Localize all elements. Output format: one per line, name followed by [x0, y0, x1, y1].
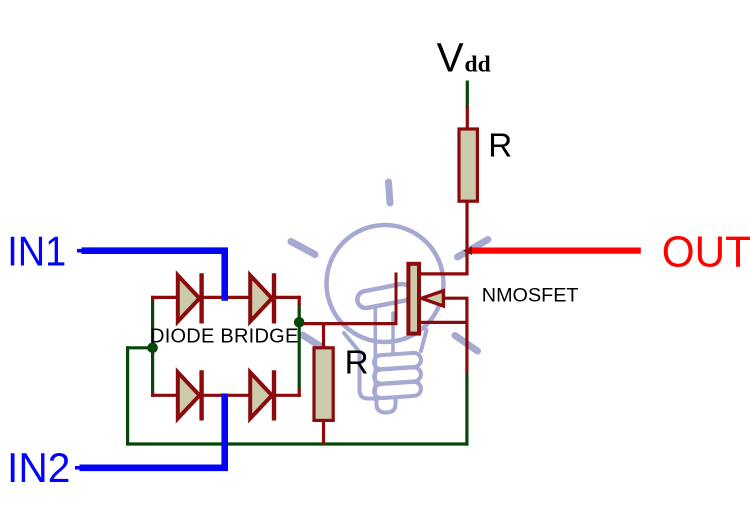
wire source lower vertical (green net)	[465, 372, 468, 446]
resistor R1 body	[459, 129, 477, 201]
svg-text:IN2: IN2	[7, 445, 70, 492]
label Vdd	[437, 35, 491, 81]
wire R2 top stub	[322, 322, 325, 348]
wire left dot feed (green net)	[126, 346, 154, 349]
wire bridge right edge (green net)	[298, 303, 301, 390]
svg-text:V: V	[437, 35, 464, 81]
junction arrowhead at OUT	[463, 246, 472, 255]
wire Vdd stub (green net)	[466, 81, 469, 109]
wire NMOSFET source bottom stub	[420, 321, 467, 324]
NMOSFET channel bar	[408, 264, 419, 334]
resistor R2 body	[314, 348, 333, 421]
wire source to right vertical	[443, 298, 467, 373]
diode D1 (top left)	[178, 273, 202, 323]
wire bridge top rail	[151, 296, 301, 299]
svg-text:IN1: IN1	[7, 229, 66, 275]
wire R1 to OUT junction and drain	[419, 201, 467, 274]
wire IN1 (blue)	[82, 251, 225, 301]
wire bridge left edge (green net)	[151, 300, 154, 393]
wire IN2 (blue)	[80, 394, 225, 468]
wire gate feed	[298, 322, 398, 325]
node right junction dot	[294, 317, 305, 328]
watermark light bulb logo	[291, 182, 488, 413]
wire bridge bottom rail	[151, 394, 301, 397]
diode D3 (bottom left)	[178, 370, 202, 420]
wire left outer vertical (green net)	[126, 346, 129, 444]
svg-text:R: R	[488, 128, 512, 165]
wire Vdd to resistor R1	[466, 106, 469, 129]
svg-text:dd: dd	[465, 51, 491, 77]
NMOSFET source arrow	[422, 291, 444, 306]
diode D4 (bottom right)	[250, 370, 274, 420]
wire bridge corner stubs	[153, 296, 300, 397]
svg-text:R: R	[345, 344, 369, 381]
svg-text:NMOSFET: NMOSFET	[482, 284, 579, 306]
svg-text:OUT: OUT	[662, 228, 750, 277]
wire OUT (red)	[467, 248, 641, 254]
node left junction dot	[147, 343, 158, 354]
wire R2 bottom stub	[322, 421, 325, 445]
wire bottom bus (green net)	[126, 442, 468, 445]
diode D2 (top right)	[250, 273, 274, 323]
svg-text:DIODE BRIDGE: DIODE BRIDGE	[150, 326, 299, 348]
gate bar of NMOSFET	[395, 273, 398, 324]
